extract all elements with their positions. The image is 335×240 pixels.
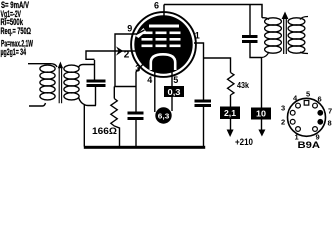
capacitor C1 input top lead [94,60,96,80]
svg-text:8: 8 [328,119,332,128]
arrow down 1 [227,130,234,138]
wire screen pin 1 [194,43,204,100]
transformer T1 primary winding [40,65,55,100]
circle 6,3 heater voltage [155,107,171,123]
B9A socket circle [288,98,326,136]
top wire [164,5,262,18]
capacitor C4 bottom lead [250,43,262,58]
resistor 166ohm lead top [113,87,115,99]
socket pin 7 (filled) [317,110,323,116]
svg-text:43k: 43k [237,81,249,90]
svg-text:+210: +210 [235,137,253,147]
transformer T1 secondary winding [64,65,79,100]
wire cathode tie [114,86,136,88]
anode riser to pin 6 [163,5,165,25]
svg-text:0,3: 0,3 [168,88,182,97]
transformer T2 primary winding [262,18,282,58]
svg-text:7: 7 [328,107,332,116]
resistor 43k bottom lead [230,95,232,107]
socket pin 5 (square) [304,101,309,106]
pin 9 inner lead [136,30,145,35]
box 0,3 heater current [164,86,184,97]
wire ground drop [83,105,85,147]
pin 9 white wedge [136,28,147,38]
wire secondary bottom hook [79,98,97,106]
socket pin 8 (filled) [317,119,323,125]
svg-text:6: 6 [154,1,159,11]
box 10 anode current [251,108,271,120]
transformer T1 primary top stub [28,64,57,67]
socket pin 3 [290,110,295,115]
ground rail [84,146,205,149]
wire secondary top to grid node [79,65,95,68]
transformer T1 core [59,68,61,103]
svg-text:5: 5 [306,90,310,99]
capacitor C2 cathode bypass lead [135,87,137,112]
wire grid node jog [86,58,95,60]
wire primary bottom drop [261,58,263,108]
capacitor C2 plates [128,112,144,115]
transformer T2 core [284,19,287,54]
heater pin 5 wire [171,64,173,111]
resistor 166ohm zigzag [111,99,118,127]
anode line (white) [149,25,179,28]
transformer T1 primary bottom stub [29,103,46,106]
resistor 43k zigzag [228,73,235,96]
resistor 166ohm lead bottom [114,126,119,147]
svg-text:9: 9 [127,24,132,34]
tube envelope outer circle [131,12,196,77]
cathode arch (white) [151,54,175,70]
socket pin 9 [313,127,318,132]
svg-text:2: 2 [124,50,130,61]
svg-text:3: 3 [135,64,140,74]
svg-text:B9A: B9A [298,140,321,150]
capacitor C3 bottom lead [203,107,205,147]
svg-text:6: 6 [318,95,322,104]
svg-text:2,1: 2,1 [224,109,237,118]
capacitor C2 bottom lead [135,120,137,147]
svg-text:2: 2 [281,118,285,127]
svg-text:Req.= 750Ω: Req.= 750Ω [1,26,32,36]
svg-text:166Ω: 166Ω [92,126,117,136]
transformer T2 secondary winding [288,17,308,54]
wire grid g1 [86,51,137,60]
wire pin 9 [115,34,140,87]
socket pin numbers [281,90,332,142]
svg-text:5: 5 [173,75,178,85]
transformer T1 core arrow [58,62,63,69]
capacitor C4 plates [242,35,258,38]
wire to supply arrow 1 [230,119,232,130]
capacitor C1 input plates [87,80,106,83]
capacitor C4 snubber top lead [249,5,251,36]
tube data text block [1,0,34,57]
transformer T2 core arrow [282,12,289,20]
grid g3 dashes (white) [142,32,181,48]
svg-text:3: 3 [281,104,285,113]
tube inner disc [134,15,192,73]
arrow down 2 [258,130,265,137]
wire to supply arrow 2 [261,120,263,131]
box 2,1 screen current [220,107,240,120]
heater pin 4 wire [154,64,156,112]
socket pin 4 [296,103,301,108]
socket pin 2 [290,119,295,124]
arrow into grid [116,46,123,55]
svg-text:6,3: 6,3 [158,113,170,120]
socket pin 1 [296,127,301,132]
svg-text:10: 10 [256,110,267,119]
wire cathode from pin 3 [136,63,145,87]
grid g1 dashes (white) [142,45,153,48]
socket pin 6 [313,103,318,108]
svg-text:4: 4 [147,75,152,85]
capacitor C3 screen plates [195,100,212,103]
wire screen to 43k [204,58,231,73]
grid g2 dashes (white) [142,38,153,41]
svg-text:1: 1 [195,31,200,41]
capacitor C1 bottom lead [95,87,97,106]
svg-text:µg2g1= 34: µg2g1= 34 [1,47,27,57]
